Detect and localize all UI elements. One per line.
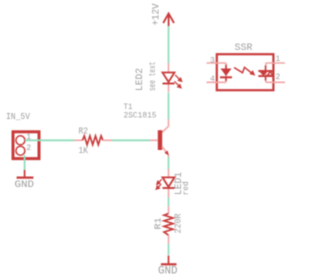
svg-text:R2: R2 bbox=[79, 127, 89, 137]
wire +12V to LED2 bbox=[168, 26, 170, 63]
svg-text:2: 2 bbox=[26, 144, 31, 153]
SSR opto solid state relay bbox=[207, 43, 286, 90]
pin 3 bbox=[207, 62, 227, 64]
wire IN_5V pin2 down to GND bbox=[24, 155, 26, 170]
wire R2 to T1 base bbox=[112, 139, 150, 141]
wire LED2 to T1 collector bbox=[168, 93, 170, 120]
svg-text:2SC1815: 2SC1815 bbox=[124, 111, 157, 121]
internal LED bbox=[225, 65, 227, 69]
ground (bottom) bbox=[158, 256, 178, 277]
internal triac bbox=[258, 66, 273, 81]
wire T1 emitter to LED1 bbox=[168, 157, 170, 169]
output bracket bbox=[265, 63, 267, 82]
svg-text:1K: 1K bbox=[79, 146, 89, 156]
svg-text:R1: R1 bbox=[153, 217, 164, 229]
connector IN_5V bbox=[6, 112, 39, 159]
resistor R1 220R bbox=[153, 206, 184, 243]
svg-text:SSR: SSR bbox=[235, 43, 253, 54]
svg-text:2: 2 bbox=[276, 73, 281, 82]
wire IN_5V pin1 to R2 bbox=[25, 139, 75, 141]
LED2 bbox=[135, 62, 182, 93]
LED1 bbox=[156, 169, 191, 198]
pin 2 bbox=[266, 81, 285, 83]
svg-text:red: red bbox=[181, 181, 191, 195]
transistor T1 2SC1815 bbox=[124, 102, 169, 157]
svg-text:LED2: LED2 bbox=[135, 68, 146, 91]
supply +12V bbox=[152, 4, 175, 27]
svg-text:1: 1 bbox=[276, 55, 281, 64]
svg-text:4: 4 bbox=[210, 75, 215, 84]
svg-text:3: 3 bbox=[210, 56, 215, 65]
svg-text:IN_5V: IN_5V bbox=[6, 112, 31, 122]
svg-text:see text: see text bbox=[148, 62, 158, 92]
resistor R2 1K bbox=[75, 127, 113, 157]
svg-text:GND: GND bbox=[15, 179, 35, 191]
ground (left, under connector) bbox=[15, 170, 35, 191]
pin 4 bbox=[207, 81, 227, 83]
wire R1 to GND bbox=[168, 244, 170, 255]
svg-text:+12V: +12V bbox=[152, 4, 163, 26]
svg-text:GND: GND bbox=[158, 266, 178, 277]
svg-text:220R: 220R bbox=[173, 213, 184, 233]
input bracket bbox=[225, 63, 227, 82]
coupling arrow bbox=[234, 67, 254, 74]
wire LED1 to R1 bbox=[168, 198, 170, 207]
pin 1 bbox=[266, 62, 285, 64]
